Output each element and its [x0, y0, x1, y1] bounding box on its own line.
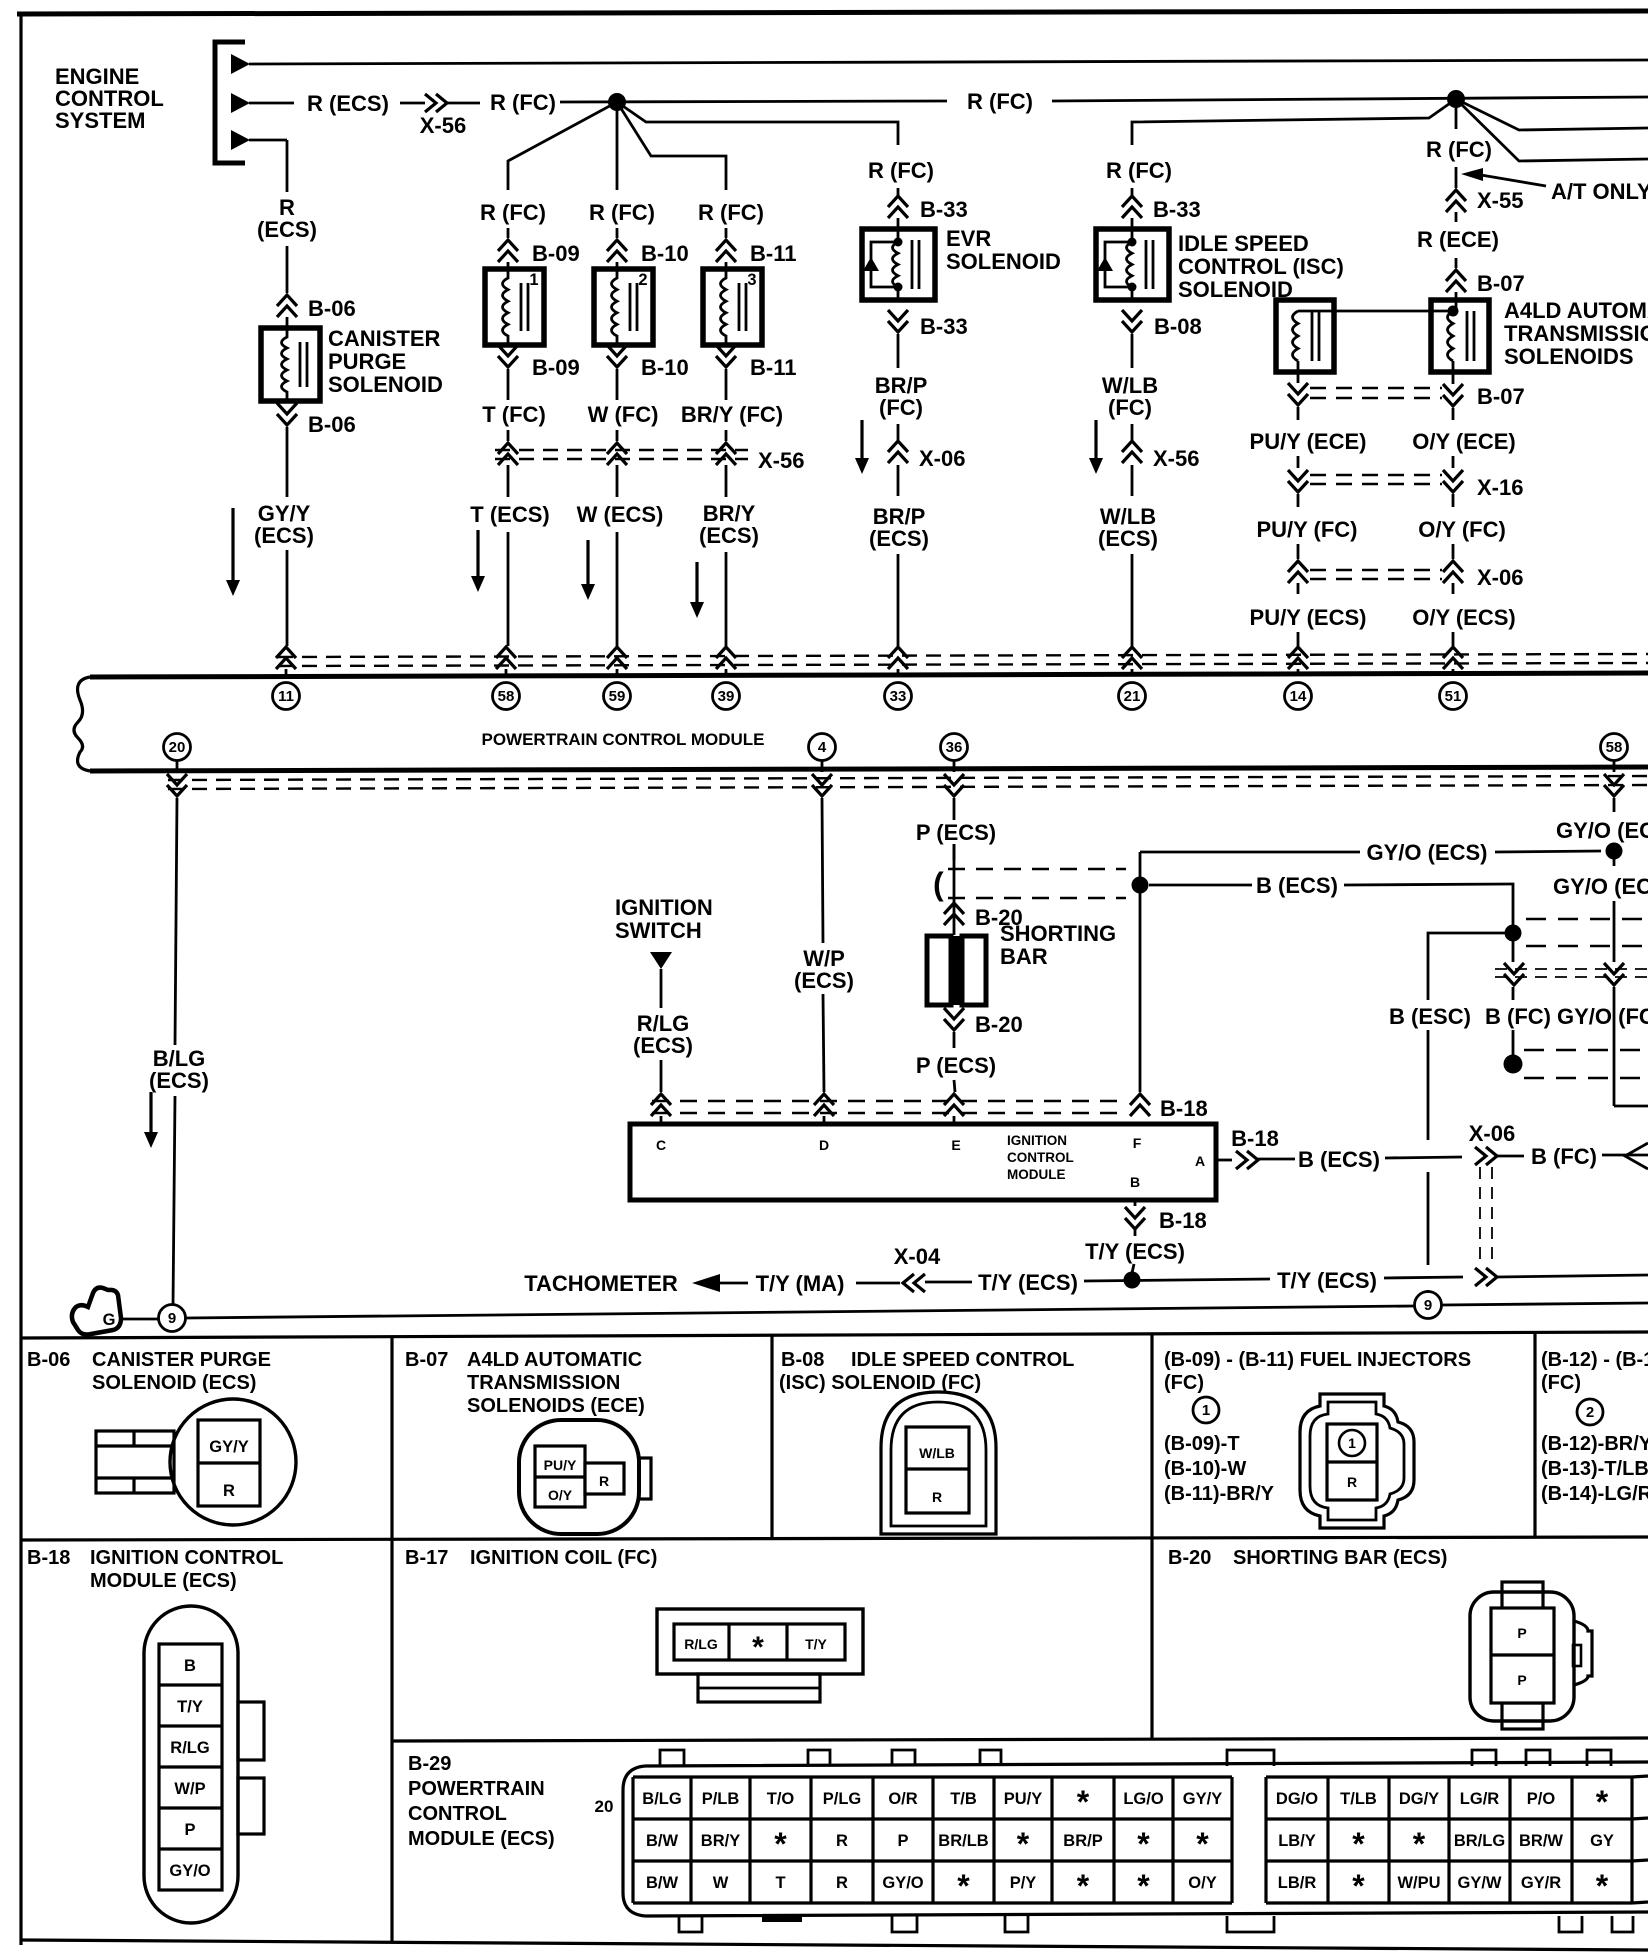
svg-text:T/Y (MA): T/Y (MA) [756, 1271, 845, 1296]
svg-text:O/Y (ECE): O/Y (ECE) [1412, 429, 1516, 454]
svg-text:B-10: B-10 [641, 241, 689, 266]
svg-text:X-04: X-04 [894, 1244, 941, 1269]
svg-text:*: * [1137, 1826, 1150, 1862]
svg-text:X-56: X-56 [758, 448, 804, 473]
svg-text:O/Y: O/Y [1188, 1874, 1216, 1892]
svg-text:2: 2 [638, 271, 647, 289]
svg-text:B-33: B-33 [920, 197, 968, 222]
svg-text:R (FC): R (FC) [480, 200, 546, 225]
svg-text:R: R [836, 1832, 848, 1850]
svg-text:R (FC): R (FC) [1426, 137, 1492, 162]
svg-text:BR/LB: BR/LB [938, 1832, 988, 1850]
svg-text:B-18: B-18 [1231, 1126, 1279, 1151]
svg-text:B (ESC): B (ESC) [1389, 1004, 1471, 1029]
svg-text:POWERTRAIN CONTROL MODULE: POWERTRAIN CONTROL MODULE [481, 730, 764, 749]
svg-text:IGNITION: IGNITION [1007, 1133, 1067, 1148]
svg-text:X-56: X-56 [420, 113, 466, 138]
svg-text:(ECS): (ECS) [794, 968, 854, 993]
svg-text:P (ECS): P (ECS) [916, 1053, 996, 1078]
svg-text:B (ECS): B (ECS) [1298, 1147, 1380, 1172]
svg-text:B-08: B-08 [781, 1349, 824, 1371]
svg-text:GY/O (FC): GY/O (FC) [1557, 1004, 1648, 1029]
svg-text:O/R: O/R [888, 1790, 917, 1808]
svg-text:X-06: X-06 [1469, 1121, 1515, 1146]
svg-text:A4LD AUTOMATIC: A4LD AUTOMATIC [1504, 298, 1648, 323]
svg-text:T: T [775, 1874, 785, 1892]
svg-text:R: R [932, 1489, 942, 1505]
svg-text:B-20: B-20 [975, 1012, 1023, 1037]
svg-text:SHORTING: SHORTING [1000, 921, 1116, 946]
svg-text:P: P [1517, 1625, 1526, 1641]
svg-text:T/Y: T/Y [805, 1636, 827, 1652]
svg-text:BR/Y: BR/Y [701, 1832, 740, 1850]
svg-text:B/W: B/W [646, 1832, 679, 1850]
svg-text:36: 36 [946, 739, 963, 756]
svg-text:(B-12)-BR/Y: (B-12)-BR/Y [1541, 1433, 1648, 1455]
svg-text:CANISTER PURGE: CANISTER PURGE [92, 1349, 271, 1371]
svg-text:P: P [1517, 1672, 1526, 1688]
svg-text:39: 39 [718, 688, 735, 705]
svg-text:O/Y (FC): O/Y (FC) [1418, 517, 1506, 542]
svg-text:*: * [957, 1868, 970, 1904]
svg-text:33: 33 [890, 688, 907, 705]
svg-text:*: * [1596, 1784, 1609, 1820]
svg-text:B-06: B-06 [27, 1349, 70, 1371]
svg-text:EVR: EVR [946, 226, 991, 251]
svg-text:(ECS): (ECS) [699, 523, 759, 548]
svg-text:20: 20 [595, 1797, 614, 1816]
svg-text:58: 58 [1606, 739, 1623, 756]
svg-text:BR/W: BR/W [1519, 1832, 1563, 1850]
svg-text:R (ECS): R (ECS) [307, 91, 389, 116]
svg-text:W (ECS): W (ECS) [577, 502, 664, 527]
svg-text:(ISC) SOLENOID (FC): (ISC) SOLENOID (FC) [779, 1372, 981, 1394]
svg-text:GY/O (ECS): GY/O (ECS) [1366, 840, 1487, 865]
svg-text:*: * [1413, 1826, 1426, 1862]
svg-text:R (ECE): R (ECE) [1417, 227, 1499, 252]
svg-text:P/LB: P/LB [702, 1790, 740, 1808]
svg-text:(FC): (FC) [1541, 1372, 1581, 1394]
svg-text:E: E [951, 1137, 960, 1153]
svg-text:T/Y (ECS): T/Y (ECS) [1277, 1268, 1377, 1293]
svg-text:MODULE (ECS): MODULE (ECS) [90, 1570, 237, 1592]
svg-text:IDLE SPEED: IDLE SPEED [1178, 231, 1309, 256]
svg-text:MODULE (ECS): MODULE (ECS) [408, 1828, 555, 1850]
svg-text:*: * [774, 1826, 787, 1862]
svg-text:20: 20 [169, 739, 186, 756]
svg-text:IDLE SPEED CONTROL: IDLE SPEED CONTROL [851, 1349, 1074, 1371]
svg-text:B/LG: B/LG [642, 1790, 681, 1808]
svg-text:B: B [1130, 1174, 1140, 1190]
svg-text:T/Y (ECS): T/Y (ECS) [1085, 1239, 1185, 1264]
svg-text:B-08: B-08 [1154, 314, 1202, 339]
svg-text:GY/O: GY/O [882, 1874, 923, 1892]
svg-text:1: 1 [529, 271, 538, 289]
svg-text:R: R [836, 1874, 848, 1892]
svg-text:PU/Y: PU/Y [1004, 1790, 1043, 1808]
svg-text:DG/Y: DG/Y [1399, 1790, 1439, 1808]
svg-text:(ECS): (ECS) [869, 526, 929, 551]
svg-text:R (FC): R (FC) [868, 158, 934, 183]
svg-text:(B-10)-W: (B-10)-W [1164, 1458, 1246, 1480]
svg-text:PU/Y (ECS): PU/Y (ECS) [1250, 605, 1367, 630]
svg-text:A4LD AUTOMATIC: A4LD AUTOMATIC [467, 1349, 642, 1371]
svg-text:*: * [1352, 1868, 1365, 1904]
svg-text:R/LG: R/LG [684, 1636, 718, 1652]
svg-text:DG/O: DG/O [1276, 1790, 1318, 1808]
svg-text:B-11: B-11 [750, 355, 796, 380]
svg-text:PURGE: PURGE [328, 349, 406, 374]
svg-text:21: 21 [1124, 688, 1141, 705]
svg-text:(ECS): (ECS) [254, 523, 314, 548]
svg-text:G: G [103, 1311, 116, 1329]
svg-text:(ECS): (ECS) [149, 1068, 209, 1093]
svg-text:(B-14)-LG/R: (B-14)-LG/R [1541, 1483, 1648, 1505]
svg-text:SYSTEM: SYSTEM [55, 108, 145, 133]
svg-text:*: * [1596, 1868, 1609, 1904]
svg-text:B: B [184, 1657, 196, 1675]
svg-text:T/Y: T/Y [177, 1698, 203, 1716]
svg-text:W/LB: W/LB [919, 1445, 955, 1461]
svg-text:GY/Y: GY/Y [1183, 1790, 1222, 1808]
svg-text:2: 2 [1586, 1404, 1594, 1421]
svg-text:X-06: X-06 [1477, 565, 1523, 590]
svg-text:58: 58 [498, 688, 515, 705]
svg-text:(FC): (FC) [1164, 1372, 1204, 1394]
svg-text:B-18: B-18 [1159, 1208, 1207, 1233]
svg-text:BAR: BAR [1000, 944, 1048, 969]
svg-text:GY: GY [1590, 1832, 1614, 1850]
svg-text:1: 1 [1348, 1435, 1356, 1451]
svg-text:W/P: W/P [174, 1780, 205, 1798]
svg-text:R (FC): R (FC) [589, 200, 655, 225]
svg-text:B-06: B-06 [308, 296, 356, 321]
svg-text:T/Y (ECS): T/Y (ECS) [978, 1270, 1078, 1295]
svg-text:B-17: B-17 [405, 1547, 448, 1569]
svg-text:R/LG: R/LG [170, 1739, 209, 1757]
svg-text:BR/LG: BR/LG [1454, 1832, 1505, 1850]
svg-text:B-07: B-07 [1477, 271, 1525, 296]
svg-text:(B-09) - (B-11) FUEL INJECTORS: (B-09) - (B-11) FUEL INJECTORS [1164, 1349, 1471, 1371]
svg-text:B-09: B-09 [532, 241, 580, 266]
svg-text:CONTROL (ISC): CONTROL (ISC) [1178, 254, 1344, 279]
svg-text:SWITCH: SWITCH [615, 918, 702, 943]
svg-text:B-07: B-07 [405, 1349, 448, 1371]
svg-text:X-06: X-06 [919, 446, 965, 471]
svg-text:R (FC): R (FC) [1106, 158, 1172, 183]
svg-text:IGNITION COIL (FC): IGNITION COIL (FC) [470, 1547, 657, 1569]
svg-text:14: 14 [1290, 688, 1307, 705]
svg-text:B-33: B-33 [1153, 197, 1201, 222]
svg-text:W (FC): W (FC) [588, 402, 659, 427]
svg-text:SOLENOIDS: SOLENOIDS [1504, 344, 1634, 369]
svg-text:W: W [713, 1874, 729, 1892]
svg-text:(ECS): (ECS) [633, 1033, 693, 1058]
svg-text:(B-11)-BR/Y: (B-11)-BR/Y [1164, 1483, 1275, 1505]
svg-text:B-11: B-11 [750, 241, 796, 266]
svg-text:W/PU: W/PU [1397, 1874, 1440, 1892]
svg-text:SOLENOID: SOLENOID [946, 249, 1061, 274]
svg-text:3: 3 [747, 271, 756, 289]
svg-text:B-20: B-20 [1168, 1547, 1211, 1569]
svg-text:TACHOMETER: TACHOMETER [524, 1271, 678, 1296]
svg-text:C: C [656, 1137, 666, 1153]
svg-text:*: * [1352, 1826, 1365, 1862]
svg-text:51: 51 [1445, 688, 1462, 705]
svg-text:X-55: X-55 [1477, 188, 1523, 213]
svg-text:P: P [184, 1821, 195, 1839]
svg-text:GY/Y: GY/Y [209, 1438, 248, 1456]
svg-text:B (FC): B (FC) [1531, 1144, 1597, 1169]
svg-text:CONTROL: CONTROL [408, 1803, 507, 1825]
svg-text:POWERTRAIN: POWERTRAIN [408, 1778, 545, 1800]
svg-text:B/W: B/W [646, 1874, 679, 1892]
svg-text:B-09: B-09 [532, 355, 580, 380]
svg-text:LB/Y: LB/Y [1278, 1832, 1316, 1850]
svg-text:IGNITION: IGNITION [615, 895, 713, 920]
svg-text:R (FC): R (FC) [698, 200, 764, 225]
svg-text:*: * [1077, 1868, 1090, 1904]
svg-text:B (FC): B (FC) [1485, 1004, 1551, 1029]
svg-text:LG/R: LG/R [1460, 1790, 1499, 1808]
svg-text:A/T ONLY: A/T ONLY [1551, 179, 1648, 204]
svg-text:PU/Y (ECE): PU/Y (ECE) [1250, 429, 1367, 454]
svg-text:GY/O (ECS): GY/O (ECS) [1553, 874, 1648, 899]
svg-text:59: 59 [609, 688, 626, 705]
svg-text:(FC): (FC) [879, 395, 923, 420]
svg-text:B (ECS): B (ECS) [1256, 873, 1338, 898]
svg-text:TRANSMISSION: TRANSMISSION [1504, 321, 1648, 346]
svg-text:X-16: X-16 [1477, 475, 1523, 500]
svg-text:R: R [223, 1482, 235, 1500]
svg-text:P/LG: P/LG [823, 1790, 862, 1808]
svg-text:SOLENOID: SOLENOID [328, 372, 443, 397]
svg-text:*: * [752, 1631, 764, 1664]
svg-text:B-06: B-06 [308, 412, 356, 437]
svg-text:*: * [1137, 1868, 1150, 1904]
svg-text:P (ECS): P (ECS) [916, 820, 996, 845]
svg-text:B-10: B-10 [641, 355, 689, 380]
svg-text:BR/P: BR/P [1063, 1832, 1102, 1850]
svg-text:P: P [897, 1832, 908, 1850]
svg-text:GY/O (ECS): GY/O (ECS) [1556, 818, 1648, 843]
svg-text:SOLENOID (ECS): SOLENOID (ECS) [92, 1372, 256, 1394]
svg-text:(B-13)-T/LB: (B-13)-T/LB [1541, 1458, 1648, 1480]
svg-text:TRANSMISSION: TRANSMISSION [467, 1372, 620, 1394]
svg-text:IGNITION CONTROL: IGNITION CONTROL [90, 1547, 283, 1569]
svg-text:9: 9 [168, 1310, 176, 1327]
svg-text:T (FC): T (FC) [482, 402, 546, 427]
svg-text:11: 11 [278, 688, 294, 705]
svg-text:GY/R: GY/R [1521, 1874, 1561, 1892]
svg-text:R (FC): R (FC) [967, 89, 1033, 114]
svg-text:B-18: B-18 [1160, 1096, 1208, 1121]
svg-text:O/Y (ECS): O/Y (ECS) [1412, 605, 1516, 630]
svg-text:*: * [1077, 1784, 1090, 1820]
svg-text:1: 1 [1202, 1402, 1210, 1419]
svg-text:O/Y: O/Y [548, 1487, 573, 1503]
svg-text:D: D [819, 1137, 829, 1153]
svg-text:R: R [599, 1473, 609, 1489]
svg-text:SOLENOIDS (ECE): SOLENOIDS (ECE) [467, 1395, 645, 1417]
svg-text:*: * [1017, 1826, 1030, 1862]
svg-text:T (ECS): T (ECS) [470, 502, 549, 527]
svg-text:F: F [1133, 1135, 1142, 1151]
svg-text:PU/Y: PU/Y [544, 1457, 577, 1473]
svg-text:4: 4 [818, 739, 827, 756]
svg-text:LG/O: LG/O [1123, 1790, 1163, 1808]
svg-text:CANISTER: CANISTER [328, 326, 441, 351]
svg-text:LB/R: LB/R [1278, 1874, 1317, 1892]
svg-text:T/B: T/B [950, 1790, 977, 1808]
svg-text:P/O: P/O [1527, 1790, 1556, 1808]
svg-text:B-29: B-29 [408, 1753, 451, 1775]
svg-text:R: R [1347, 1474, 1357, 1490]
svg-text:(B-09)-T: (B-09)-T [1164, 1433, 1240, 1455]
svg-text:GY/O: GY/O [169, 1862, 210, 1880]
svg-text:B-07: B-07 [1477, 384, 1525, 409]
svg-text:B-18: B-18 [27, 1547, 70, 1569]
svg-text:BR/Y (FC): BR/Y (FC) [681, 402, 783, 427]
svg-text:X-56: X-56 [1153, 446, 1199, 471]
svg-text:*: * [1196, 1826, 1209, 1862]
svg-text:T/O: T/O [767, 1790, 795, 1808]
svg-text:T/LB: T/LB [1340, 1790, 1377, 1808]
svg-text:(FC): (FC) [1108, 395, 1152, 420]
svg-text:SHORTING BAR (ECS): SHORTING BAR (ECS) [1233, 1547, 1447, 1569]
svg-text:(B-12) - (B-14): (B-12) - (B-14) [1541, 1349, 1648, 1371]
svg-text:P/Y: P/Y [1010, 1874, 1037, 1892]
svg-text:PU/Y (FC): PU/Y (FC) [1256, 517, 1357, 542]
svg-text:A: A [1195, 1153, 1205, 1169]
svg-text:9: 9 [1424, 1297, 1432, 1314]
svg-text:R (FC): R (FC) [490, 90, 556, 115]
svg-text:(ECS): (ECS) [1098, 526, 1158, 551]
svg-text:MODULE: MODULE [1007, 1167, 1066, 1182]
svg-text:CONTROL: CONTROL [1007, 1150, 1074, 1165]
svg-text:B-33: B-33 [920, 314, 968, 339]
svg-text:GY/W: GY/W [1458, 1874, 1502, 1892]
svg-text:(ECS): (ECS) [257, 217, 317, 242]
svg-text:(: ( [933, 866, 944, 902]
